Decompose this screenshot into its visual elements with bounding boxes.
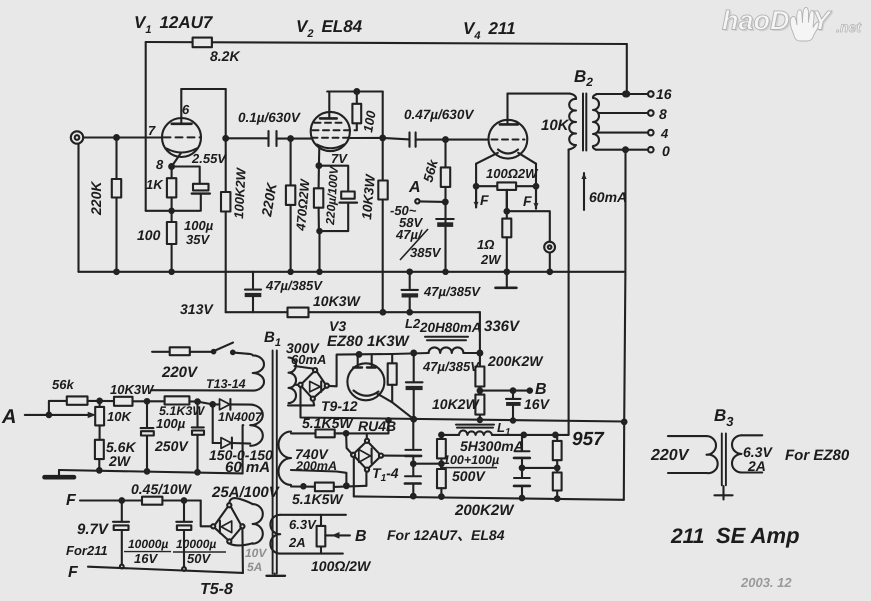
capacitor 100u/35V bypass [193,184,209,191]
transformer B2 primary coil [569,94,576,150]
resistor 100R2W hum pot [476,185,497,187]
svg-text:60mA: 60mA [589,189,627,205]
svg-text:5.1K5W: 5.1K5W [292,491,344,507]
ground mark under core [274,574,276,576]
resistor 10K2W [475,395,484,415]
ground bar and wire [59,470,243,473]
wire rail2 corner down to L2 [479,312,481,353]
ground mark B3 [722,486,724,500]
tube V2 cathode [317,145,344,149]
node V1 cathode [169,164,174,169]
wire V2 plate drop [382,92,384,138]
terminal 4 [648,130,654,136]
wire link left chain [413,463,441,465]
V4 filament network left leg [475,164,477,187]
tube V1 cathode [167,149,197,153]
svg-text:A: A [408,179,421,196]
diode inside EZ80 bridge [310,381,321,392]
svg-text:47µ/385V: 47µ/385V [265,278,323,293]
svg-text:100: 100 [137,227,161,243]
wire RU4B right vertex to filter [383,455,413,457]
svg-text:2.55V: 2.55V [191,151,227,166]
wire bridge top to winding T5-8 [229,498,252,504]
svg-text:313V: 313V [180,301,214,317]
resistor 56K bias [67,396,88,404]
inductor L2 20H80mA [425,336,468,338]
resistor chain 200K2W right [556,435,558,441]
svg-text:500V: 500V [452,468,486,484]
tube V3 cathode [354,391,379,396]
svg-text:60 mA: 60 mA [225,459,270,476]
svg-text:6.3V: 6.3V [289,517,317,532]
node input junction [114,135,119,140]
node cathode bottom [169,209,173,213]
ground stub below rail1 [506,273,508,287]
wire ground rail 1 [79,271,624,273]
svg-text:2A: 2A [288,535,306,550]
svg-text:4: 4 [660,126,669,141]
node screen resistor top [354,89,359,94]
wire winding bottom tap [288,401,314,406]
tube V3 EZ80 envelope [347,363,384,400]
wire 0-tap ground drop [624,150,626,500]
svg-text:5H300mA: 5H300mA [460,438,524,454]
wire V4 plate to B2 [508,93,570,95]
svg-text:100+100µ: 100+100µ [443,453,499,467]
resistor 10K3W dropper [288,308,309,318]
wire bridge right vertex down [241,529,244,573]
resistor 5.6K2W [95,440,104,459]
svg-text:F: F [523,193,532,209]
svg-text:60mA: 60mA [291,352,326,367]
winding B1 T13-14 220V [248,354,264,391]
svg-text:0.45/10W: 0.45/10W [131,481,193,497]
svg-text:250V: 250V [154,438,189,454]
svg-text:957: 957 [572,429,605,450]
svg-text:0.1µ/630V: 0.1µ/630V [238,110,301,125]
fuse [152,351,170,353]
inductor L1 5H300mA core bars [456,424,494,426]
terminal 8 [648,110,654,116]
svg-text:10000µ: 10000µ [128,537,168,551]
capacitor 100u/250V [146,401,148,427]
svg-text:10K: 10K [541,117,570,134]
svg-text:16V: 16V [524,396,551,412]
wire to terminal B [480,390,530,392]
diode inside 25A bridge [221,521,232,533]
transformer B3 primary coil [707,436,718,473]
capacitor 100u/250V second [196,402,198,427]
wire tap 4 [598,132,648,134]
svg-text:385V: 385V [410,245,442,260]
node V1 plate out [223,136,228,141]
svg-text:Y: Y [812,6,833,36]
svg-text:10K3W: 10K3W [313,293,361,309]
wire T13-14 lower lead [151,389,253,391]
svg-text:100Ω/2W: 100Ω/2W [311,558,372,574]
wire V1 plate-feed vertical [145,42,147,211]
wire V1 out to cap [226,137,269,139]
svg-text:2W: 2W [480,252,502,267]
svg-text:220K: 220K [88,181,104,216]
svg-text:For 12AU7、EL84: For 12AU7、EL84 [387,527,505,543]
transformer B3 secondary coil [732,435,742,472]
capacitor 10000u/16V [121,501,123,522]
switch [212,350,216,354]
resistor 100R heater [320,515,322,526]
resistor 5.1K5W lower [291,485,315,487]
potentiometer 10K [99,401,101,407]
watermark hand glyph [790,7,820,41]
diode 1N4007 lower [212,404,214,443]
svg-text:100K2W: 100K2W [231,166,249,219]
svg-text:8.2K: 8.2K [210,48,240,64]
svg-text:220V: 220V [161,364,199,381]
svg-text:10000µ: 10000µ [176,537,216,551]
resistor 470R2W cathode [318,166,320,189]
svg-text:V3: V3 [329,318,346,334]
wire tap 16 [597,93,649,95]
winding B1 6.3V 2A [280,514,346,516]
tube V2 EL84 envelope [311,112,350,151]
svg-text:haoD: haoD [722,6,790,36]
transformer B2 core [582,94,584,151]
svg-text:7: 7 [148,123,156,138]
svg-text:47µ/385V: 47µ/385V [423,284,481,299]
wire bridge bottom to winding [229,543,252,545]
wire V2 screen top run [327,90,383,92]
svg-text:10V: 10V [245,546,267,560]
svg-text:2003. 12: 2003. 12 [740,575,792,590]
wire to bypass cap [172,167,200,184]
resistor 5.1K5W upper [291,432,316,434]
transformer B3 primary lines [668,435,707,437]
transformer B2 secondary coil [593,94,599,150]
winding B1 T9-12 300V [289,358,297,404]
resistor chain 200K2W left [440,435,442,439]
terminal A wire [25,414,90,416]
capacitor chain right [521,435,523,451]
svg-text:8: 8 [156,157,164,172]
tube V2 grid dashes [315,122,347,124]
svg-text:T13-14: T13-14 [206,377,246,391]
wire F lower [88,567,243,573]
svg-text:1K: 1K [146,177,164,192]
wire RU4B top vertex to rail2b [335,420,389,433]
tube V3 plates [357,354,359,367]
wire winding to bridge left vertex [296,384,299,386]
svg-text:SE Amp: SE Amp [716,523,800,548]
wire link right chain [522,467,557,469]
F arrow left [475,188,477,207]
svg-text:211: 211 [670,525,704,548]
SECTION:TEXTMAIN [88,13,672,574]
wire V1 plate drop / 100K2W chain [225,89,227,192]
svg-text:47µ/385V: 47µ/385V [422,359,480,374]
input jack J1 [71,131,83,143]
capacitor 47u/385V no.1 [252,272,254,288]
tube V1 12AU7 envelope [162,118,201,157]
wire B+ filter rail [441,434,459,436]
wire RU4B bottom vertex drop [365,472,367,486]
wire 313V branch rail2 [226,311,288,313]
svg-text:5A: 5A [247,560,262,574]
capacitor 220u/100V branch box [319,166,348,192]
wire to RU4B left vertex [346,433,352,453]
svg-text:35V: 35V [186,232,210,247]
svg-text:T9-12: T9-12 [321,398,358,414]
wire F to bridge left vertex [201,501,211,527]
svg-text:10K3W: 10K3W [110,382,155,397]
wire bottom rail of psu box [354,496,624,499]
svg-text:0.47µ/630V: 0.47µ/630V [404,107,474,122]
wire input [83,136,161,138]
tube V4 filament [498,150,518,154]
winding B1 740V 200mA [279,432,292,485]
resistor 220K V2 grid leak [290,139,292,186]
bridge EZ80 rectifier diamond [302,372,313,383]
node rail end corner [622,420,627,425]
wire cathode network bottom [146,210,200,212]
transformer B3 secondary lines [742,434,763,436]
wire jack ground drop [77,144,79,272]
svg-text:220V: 220V [650,447,690,464]
node V2 cathode [317,163,322,168]
node V4 grid [443,137,448,142]
arrow 60mA B2 [583,173,585,210]
winding B1 T5-8 [253,504,263,544]
tube V4 211 envelope [489,120,528,159]
resistor 220K input grid leak [115,138,117,180]
bridge 25A/100V diamond [215,507,227,524]
terminal A [415,199,419,203]
svg-text:2A: 2A [747,458,766,474]
svg-text:9.7V: 9.7V [77,521,110,538]
capacitor chain 100+100u/500V left [412,419,414,449]
svg-text:RU4B: RU4B [358,418,396,434]
wire rail2b start from left vertex [301,387,624,422]
resistor 5.1K3W bias [147,400,165,402]
svg-text:100µ: 100µ [184,218,214,233]
node A bias [443,200,448,205]
svg-text:F: F [68,564,79,581]
svg-text:10K2W: 10K2W [432,396,480,412]
tube V2 plate [320,117,337,120]
node rail1 junctions [114,270,119,275]
resistor 0.45/10W [142,497,162,505]
svg-text:EZ80 1K3W: EZ80 1K3W [327,333,411,350]
wire 740V middle tap [291,470,346,486]
resistor 100K2W [221,192,230,212]
capacitor 47u/385V no.2 [409,272,411,288]
wire B2 primary bottom drop [568,150,570,435]
watermark logo haoDIY.net [722,6,862,42]
svg-text:1Ω: 1Ω [477,237,494,252]
svg-text:2W: 2W [108,453,132,469]
svg-text:0: 0 [662,143,670,159]
terminal 16 [648,91,654,97]
capacitor 10000u/50V [183,501,185,522]
wire B+ top line [146,42,627,44]
wire tap 0 [596,149,648,151]
capacitor 16V [512,391,514,399]
bridge RU4B diamond [355,443,365,453]
wire V2 plate out [350,138,410,140]
wire center tap drop [242,425,245,473]
tube V4 grid dashes [492,139,525,141]
svg-text:5.1K5W: 5.1K5W [302,415,354,431]
svg-text:100µ: 100µ [156,416,186,431]
resistor 1R2W [506,211,508,218]
resistor 200K2W [479,353,481,367]
wire 16-tap to B+ corner [624,92,629,97]
tube V4 plate [500,123,518,126]
svg-text:16V: 16V [134,551,158,566]
svg-text:10K: 10K [107,409,132,424]
wire bridge out to EZ80 plates [329,353,429,386]
svg-text:8: 8 [659,106,667,122]
svg-text:T5-8: T5-8 [200,581,233,598]
wire winding to bridge top vertex [295,366,313,369]
slash mark bias cap label [400,229,428,260]
svg-text:6: 6 [182,102,190,117]
svg-text:B: B [355,528,367,545]
wire hum pot center tap [506,190,508,211]
svg-text:336V: 336V [484,318,521,335]
svg-text:7V: 7V [331,151,348,166]
svg-text:200K2W: 200K2W [487,353,544,369]
capacitor 0.1u/630V coupling [267,131,269,146]
tube V1 plate [172,123,192,126]
svg-text:F: F [66,492,77,509]
resistor 56K grid [444,140,446,168]
wire V3 cathode out [378,394,414,419]
terminal 0 [648,147,654,153]
svg-text:20H80mA: 20H80mA [419,320,482,335]
wire F upper [80,499,142,501]
resistor 10K3W V2 plate load [382,138,384,181]
diode inside RU4B [359,450,371,463]
wire A branch up [49,401,67,415]
wire V1 plate top run [181,88,225,90]
resistor 100 screen [356,92,358,104]
svg-text:.net: .net [836,19,862,35]
svg-text:For EZ80: For EZ80 [785,447,850,464]
resistor 100 below cathode [171,211,173,222]
capacitor 47u/385V no.3 [413,353,415,382]
transformer B1 core [272,351,274,574]
transformer B3 core [721,433,723,485]
svg-text:For211: For211 [66,543,108,558]
svg-text:A: A [1,406,16,428]
V4 filament network right leg [535,164,537,187]
svg-text:16: 16 [656,86,672,102]
F arrow right [535,189,537,209]
inductor L1 coil [459,431,492,435]
capacitor 0.47u/630V coupling [408,132,410,146]
svg-text:F: F [480,192,489,208]
svg-text:100Ω2W: 100Ω2W [486,166,539,181]
svg-text:200K2W: 200K2W [454,502,515,519]
wire RU4B left vertex drop [353,457,355,496]
svg-text:200mA: 200mA [295,459,337,473]
svg-text:1N4007: 1N4007 [218,410,263,424]
wire tap 8 [598,112,648,114]
svg-text:L2: L2 [405,316,421,331]
resistor 10K3W bias [100,400,114,402]
node V2 grid [288,136,293,141]
tube V1 grid dashes [164,136,200,138]
arrow to terminal B heater [325,534,350,536]
resistor 1K3W [391,354,393,363]
svg-text:56k: 56k [52,377,74,392]
svg-text:25A/100V: 25A/100V [211,484,281,501]
resistor 8.2K [193,38,212,48]
wire right corner down to B2 [626,44,628,94]
diode 1N4007 upper [198,402,213,405]
winding B1 150-0-150 [250,405,263,446]
jack meter [544,242,555,253]
capacitor 47u/385V bias [436,218,454,220]
svg-text:50V: 50V [187,551,211,566]
resistor 1K cathode [171,167,173,179]
